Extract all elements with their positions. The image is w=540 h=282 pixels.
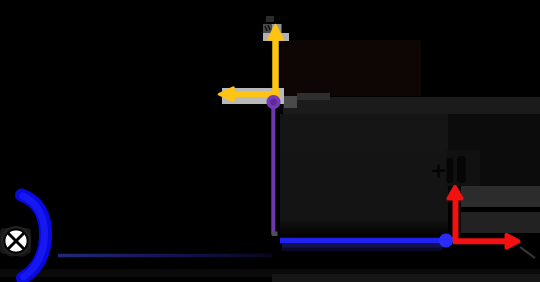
dim maroon tint right of yellow line (281, 40, 421, 96)
halo around into-page symbol (0, 228, 31, 254)
yellow horizontal arrow head (219, 88, 234, 102)
into-page symbol disc (4, 229, 27, 252)
dark glyph in label box (265, 25, 270, 31)
red vertical arrow head (449, 187, 462, 199)
gray label box top lower row (263, 33, 289, 41)
black scribble plus-sign (433, 166, 444, 177)
red horizontal arrow shaft (453, 238, 506, 244)
gray label box top (light half) (272, 24, 282, 33)
red horizontal arrow head (507, 235, 519, 248)
dim bottom strip (0, 269, 540, 277)
dim right mid area (448, 114, 540, 186)
blue glow under main blue line (282, 244, 444, 248)
gray band right 1 (461, 186, 540, 207)
gray band right 2 (461, 212, 540, 233)
into-page symbol X (9, 234, 23, 248)
red vertical arrow shaft (453, 199, 459, 242)
dim mid rectangle (280, 114, 448, 236)
faint gray diagonal at red arrow tip (520, 247, 535, 258)
purple node dot (267, 95, 281, 109)
yellow vertical arrow shaft (272, 36, 279, 99)
blue main horizontal line (280, 238, 444, 244)
blue rotation arc bright core (23, 196, 45, 277)
blue node dot (439, 234, 453, 248)
black scribble glyphs (447, 156, 467, 183)
yellow vertical arrow head (269, 25, 283, 40)
gray blob at purple line tip (272, 232, 278, 237)
yellow horizontal arrow shaft (232, 92, 279, 98)
dark marks below symbol (7, 254, 26, 256)
gray continuation right of purple dot (284, 96, 297, 108)
faint mark above yellow arrowhead (266, 16, 274, 22)
dark navy line lower left (58, 254, 272, 258)
blue rotation arc (22, 195, 46, 278)
gray band behind horizontal yellow arrow (222, 88, 284, 104)
dim band upper right (283, 97, 540, 114)
purple vertical line (271, 104, 275, 235)
gray label box top (dark half) (263, 24, 272, 33)
dim gray tail of band (297, 93, 330, 100)
